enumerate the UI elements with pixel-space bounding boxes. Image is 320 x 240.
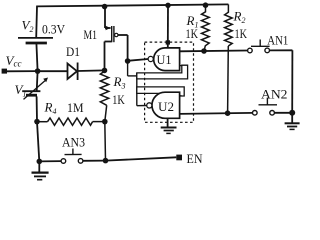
- svg-text:R2: R2: [233, 9, 246, 26]
- svg-text:1K: 1K: [112, 92, 125, 107]
- svg-text:1M: 1M: [67, 100, 84, 115]
- svg-text:Vcc: Vcc: [6, 53, 22, 69]
- svg-text:V2: V2: [22, 18, 34, 34]
- svg-text:D1: D1: [66, 44, 80, 59]
- svg-text:U1: U1: [157, 52, 172, 67]
- svg-text:EN: EN: [187, 152, 203, 166]
- svg-text:1K: 1K: [235, 26, 248, 41]
- svg-text:V1: V1: [15, 82, 27, 98]
- svg-text:AN2: AN2: [261, 88, 288, 102]
- svg-text:R3: R3: [113, 74, 126, 91]
- svg-text:AN3: AN3: [62, 136, 85, 150]
- svg-text:U2: U2: [158, 99, 174, 114]
- svg-text:AN1: AN1: [267, 34, 288, 48]
- svg-text:0.3V: 0.3V: [42, 22, 66, 37]
- svg-text:R4: R4: [44, 100, 57, 117]
- svg-text:M1: M1: [84, 27, 98, 42]
- svg-text:1K: 1K: [186, 26, 199, 41]
